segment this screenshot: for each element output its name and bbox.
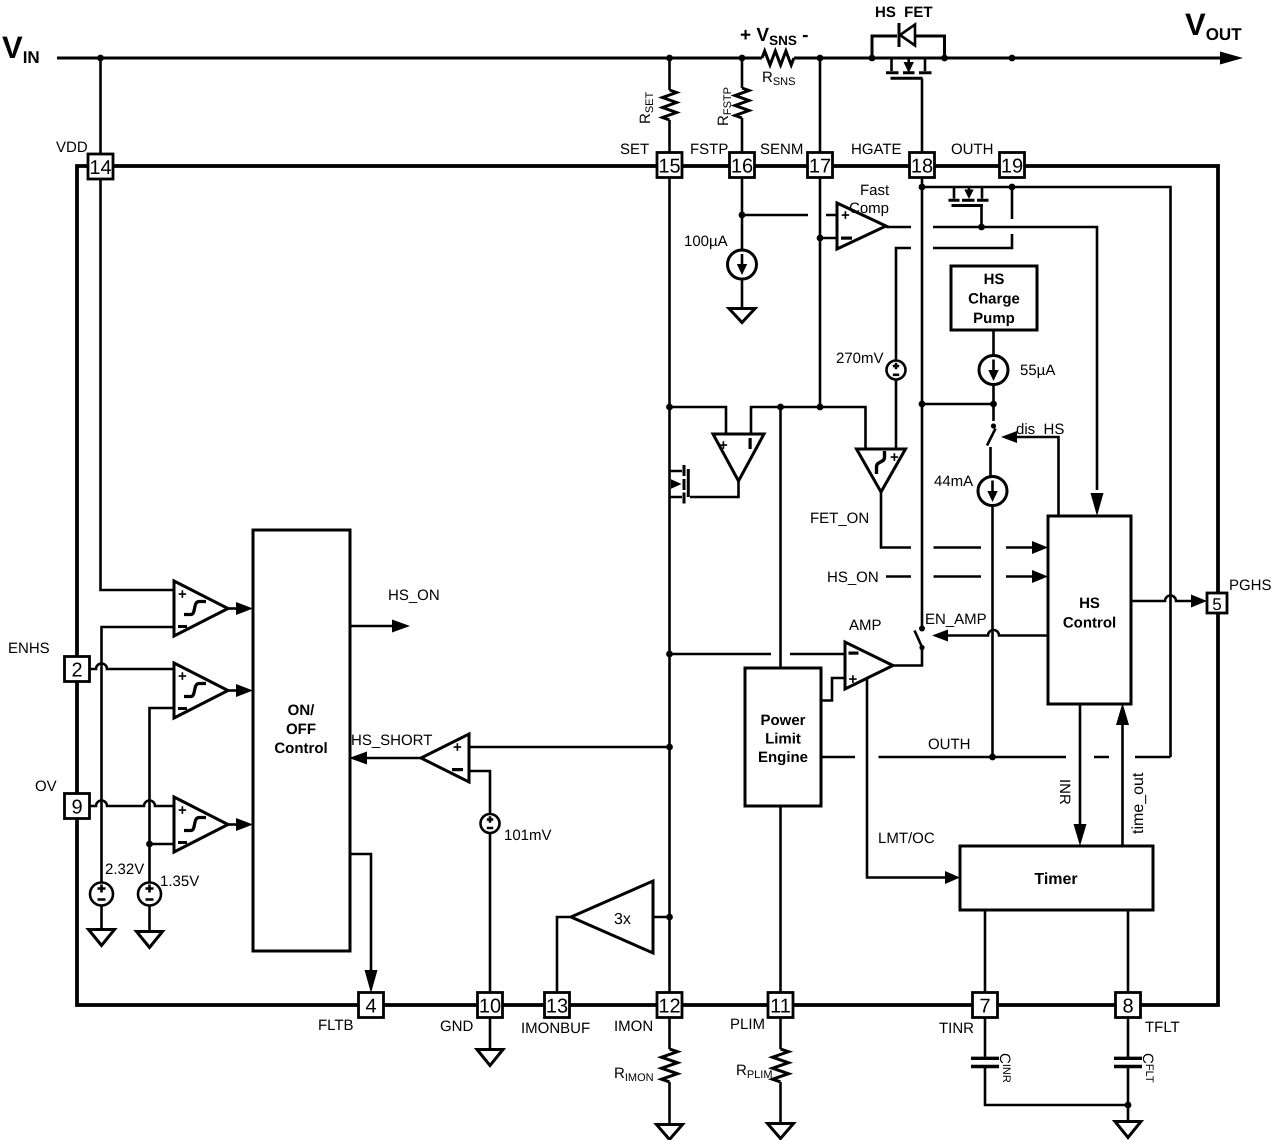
wire OUTH stub down crossing [896,187,1012,361]
arrowhead LMT/OC [945,871,960,884]
svg-text:EN_AMP: EN_AMP [925,611,987,628]
ground RPLIM [768,1124,794,1139]
svg-text:+: + [453,739,462,756]
svg-text:Engine: Engine [758,749,808,766]
svg-text:10: 10 [479,996,501,1018]
wire 3x output to IMONBUF [557,917,571,993]
wire M2 gate to FastComp output [980,206,983,228]
svg-text:+: + [890,449,899,466]
wire charge pump to 55uA [992,330,995,356]
pin 11 PLIM [768,993,793,1018]
node SENM junction [817,235,824,242]
wire LMT/OC [867,679,945,878]
op-amp HS_SHORT comparator [421,734,469,782]
voltage source 101mV [481,814,500,833]
svg-text:INR: INR [1056,779,1073,805]
node y407 junctions [666,404,673,411]
ground RIMON [657,1125,683,1140]
svg-text:OUTH: OUTH [928,736,971,753]
arrowhead VOUT rail [1220,52,1243,65]
wire SENM net down [819,238,822,407]
comparator FET_ON (270mV hysteresis) [857,449,906,492]
wire SET net down [668,120,671,993]
svg-text:Fast: Fast [860,182,890,199]
wire 101mV to GND pin [489,833,492,993]
svg-text:4: 4 [365,996,376,1018]
wire comp2 output arrow [228,689,238,692]
svg-text:Pump: Pump [973,310,1015,327]
svg-text:18: 18 [911,156,933,178]
switch dis_HS [992,404,995,421]
wire FSTP net down [741,118,744,250]
svg-text:+: + [849,671,858,688]
ground 2.32V [89,930,115,946]
wire comp3 minus [150,843,175,846]
svg-text:Charge: Charge [968,291,1020,308]
pin 17 SENM [808,153,833,178]
wire TINR pin to Timer [984,910,987,993]
node HGATE junction below pin18 [919,184,926,191]
transistor HS FET [890,58,893,71]
pin 16 FSTP [730,153,755,178]
current source 55uA [979,356,1008,385]
voltage source 2.32V [90,883,113,906]
svg-text:HS_ON: HS_ON [388,587,440,604]
arrowhead PGHS [1191,595,1207,608]
svg-text:1.35V: 1.35V [160,873,199,890]
wire y407 right run [751,407,866,449]
svg-text:FSTP: FSTP [690,141,728,158]
net PLIM vertical to PLE [779,407,782,668]
svg-text:ON/: ON/ [288,702,316,719]
comparator UVLO (comp1) [174,581,228,636]
resistor RSET [663,90,677,120]
wire HS_ON output [350,625,393,628]
wire RIMON to ground [668,1082,671,1124]
ground 100uA [729,309,755,323]
pin 19 OUTH [1000,153,1025,178]
arrowhead FET_ON [1032,541,1048,554]
svg-text:LMT/OC: LMT/OC [878,830,935,847]
arrowhead into HS Control top [1091,493,1104,516]
current source 44mA [978,477,1007,506]
wire pin2 to comp2 with hop [90,664,174,670]
svg-text:Limit: Limit [765,731,801,748]
svg-text:101mV: 101mV [504,827,552,844]
svg-text:OV: OV [35,778,57,795]
current source 100uA [728,250,757,279]
resistor RSNS [762,51,794,65]
arrowhead EN_AMP [932,630,948,642]
svg-text:+: + [719,437,728,454]
svg-text:3x: 3x [614,911,631,928]
wire AMP plus input from PLE [821,678,845,701]
svg-text:TINR: TINR [939,1020,974,1037]
node OUTH junction below pin19 [1009,184,1016,191]
resistor RFSTP [735,88,749,118]
svg-text:VDD: VDD [56,139,88,156]
wire 100uA to ground [741,279,744,308]
pin 9 OV [65,794,90,819]
svg-text:PLIM: PLIM [730,1016,765,1033]
svg-text:270mV: 270mV [836,350,884,367]
svg-text:IMONBUF: IMONBUF [521,1020,590,1037]
arrowhead HS_ON [1032,570,1048,583]
wire SET comp output to M1 gate [690,481,739,497]
wire comp2 minus to 1.35V [150,708,175,883]
arrowhead INR [1074,824,1087,846]
wire TFLT below pin [1127,1017,1130,1058]
arrowhead time_out [1116,703,1129,725]
pin 18 HGATE [910,153,935,178]
svg-text:PGHS: PGHS [1229,577,1272,594]
pin 2 ENHS [65,657,90,682]
svg-text:HS: HS [984,271,1005,288]
comparator ENHS (comp2) [174,663,228,718]
wire HS_SHORT plus input [469,746,670,749]
wire HS_SHORT minus to 101mV [469,771,490,814]
resistor RPLIM [773,1049,789,1082]
pin 12 IMON [657,993,682,1018]
comparator OV (comp3) [174,797,228,852]
svg-text:9: 9 [71,797,82,819]
wire OUTH to right rail [1012,187,1171,757]
wire comp1 minus to 2.32V [102,627,175,883]
svg-text:OUTH: OUTH [951,141,994,158]
op-amp AMP [845,642,893,689]
svg-text:HS_SHORT: HS_SHORT [351,732,432,749]
transistor M1 [687,469,690,497]
svg-text:2.32V: 2.32V [105,861,144,878]
svg-text:AMP: AMP [849,617,882,634]
capacitor CINR [971,1058,999,1066]
wire HGATE to 55uA node [922,403,994,406]
svg-text:Timer: Timer [1034,871,1077,888]
svg-text:+: + [178,668,187,685]
wire GND pin to ground [489,1017,492,1049]
block Power Limit Engine [745,668,821,806]
svg-text:44mA: 44mA [934,473,973,490]
svg-text:+: + [178,802,187,819]
pin 7 TINR [973,993,998,1018]
pin 14 VDD [88,154,113,179]
capacitor CFLT [1114,1058,1142,1066]
svg-text:SET: SET [620,141,649,158]
node FSTP junction [739,212,746,219]
op-amp Fast Comp [837,203,886,249]
wire FastComp plus input [742,214,837,217]
wire VIN rail [57,57,1222,60]
block HS Control [1048,516,1131,704]
wire FLTB output [350,854,371,970]
wire FastComp minus input [820,237,837,240]
block Timer [960,846,1153,910]
svg-text:17: 17 [809,156,831,178]
ground timer caps [1115,1122,1141,1138]
resistor RIMON [662,1049,678,1082]
svg-text:15: 15 [658,156,680,178]
pin 8 TFLT [1116,993,1141,1018]
block ON/OFF Control [253,530,350,951]
switch EN_AMP at AMP output [893,649,922,666]
net VDD vertical from VIN [101,58,175,590]
ground GND pin [477,1050,503,1066]
svg-text:Control: Control [274,740,327,757]
svg-text:19: 19 [1001,156,1023,178]
svg-text:2: 2 [71,660,82,682]
buffer 3x [571,881,653,953]
pin 15 SET [657,153,682,178]
op-amp SET comparator [713,434,764,481]
net SET/IMON vertical x=669 [668,58,671,90]
IC boundary [77,166,1218,1005]
net FSTP vertical x=742 [741,58,744,88]
wire comp1 output arrow [228,607,238,610]
svg-text:8: 8 [1122,996,1133,1018]
svg-text:GND: GND [440,1018,474,1035]
diode HS FET body [872,36,945,58]
wire HS_SHORT output [367,757,421,760]
net HGATE vertical x=922 [921,177,924,626]
svg-text:Control: Control [1063,615,1116,632]
wire TINR below pin [984,1017,987,1058]
svg-text:14: 14 [89,157,111,179]
pin 5 PGHS [1207,593,1227,613]
node rail junctions [97,55,104,62]
svg-text:Comp: Comp [849,200,889,217]
svg-text:16: 16 [731,156,753,178]
wire CINR bottom [985,1066,1128,1105]
svg-text:HS: HS [1079,595,1100,612]
wire 44mA down to OUTH [991,506,994,758]
wire INR [1079,704,1082,825]
svg-text:IMON: IMON [614,1018,653,1035]
net SENM vertical x=820 [819,58,822,238]
wire 270mV to comparator [895,380,898,450]
svg-text:TFLT: TFLT [1145,1019,1180,1036]
voltage source 1.35V [138,883,161,906]
pin 10 GND [478,993,503,1018]
svg-text:FLTB: FLTB [318,1017,354,1034]
wire IMON below pin [668,1017,671,1049]
wire FastComp output [886,227,1097,490]
svg-text:5: 5 [1212,595,1221,614]
node gate M2 junction [978,224,985,231]
svg-text:11: 11 [770,996,791,1018]
pin 4 FLTB [359,993,384,1018]
ground 1.35V [137,932,163,948]
wire dis_HS control [1017,437,1059,515]
wire comp3 output arrow [228,823,238,826]
svg-text:OFF: OFF [286,721,316,738]
svg-text:12: 12 [658,996,680,1018]
wire PLE to PLIM pin [779,806,782,993]
svg-text:dis_HS: dis_HS [1016,421,1064,438]
svg-text:100µA: 100µA [684,233,728,250]
svg-text:55µA: 55µA [1020,362,1055,379]
svg-text:13: 13 [546,996,568,1018]
arrowhead dis_HS [1001,431,1017,443]
wire CFLT to ground [1127,1066,1130,1121]
svg-text:Power: Power [760,712,805,729]
svg-text:HS_ON: HS_ON [827,569,879,586]
wire time_out [1121,724,1124,846]
svg-text:time_out: time_out [1130,772,1147,834]
wire internal FET rail [922,186,1012,189]
transistor M2 internal [953,187,956,199]
wire TFLT pin to Timer [1127,910,1130,993]
wire pin9 to comp3 with hops [90,801,174,807]
svg-text:+: + [178,586,187,603]
voltage source 270mV [887,361,906,380]
wire OUTH horizontal [821,756,1171,759]
wire AMP minus input [670,653,846,656]
svg-text:ENHS: ENHS [8,640,50,657]
wire y407 left run [670,407,727,434]
wire 2.32V to ground [100,906,103,930]
wire 1.35V to ground [148,906,151,932]
wire 55uA down [992,385,995,405]
svg-text:HS FET: HS FET [875,4,933,21]
wire EN_AMP with hop [948,630,1048,636]
wire RPLIM to ground [779,1082,782,1123]
svg-text:FET_ON: FET_ON [810,510,869,527]
wire 3x input [653,916,670,919]
svg-text:HGATE: HGATE [851,141,902,158]
wire HGATE gate [921,78,924,155]
wire HS_ON dashed [886,575,1035,578]
svg-text:SENM: SENM [760,141,803,158]
wire PGHS output with hop [1131,596,1191,602]
wire FET_ON dashed [881,492,1035,548]
block HS Charge Pump [951,266,1037,330]
wire PLIM below pin [779,1017,782,1049]
pin 13 IMONBUF [545,993,570,1018]
svg-text:7: 7 [979,996,990,1018]
